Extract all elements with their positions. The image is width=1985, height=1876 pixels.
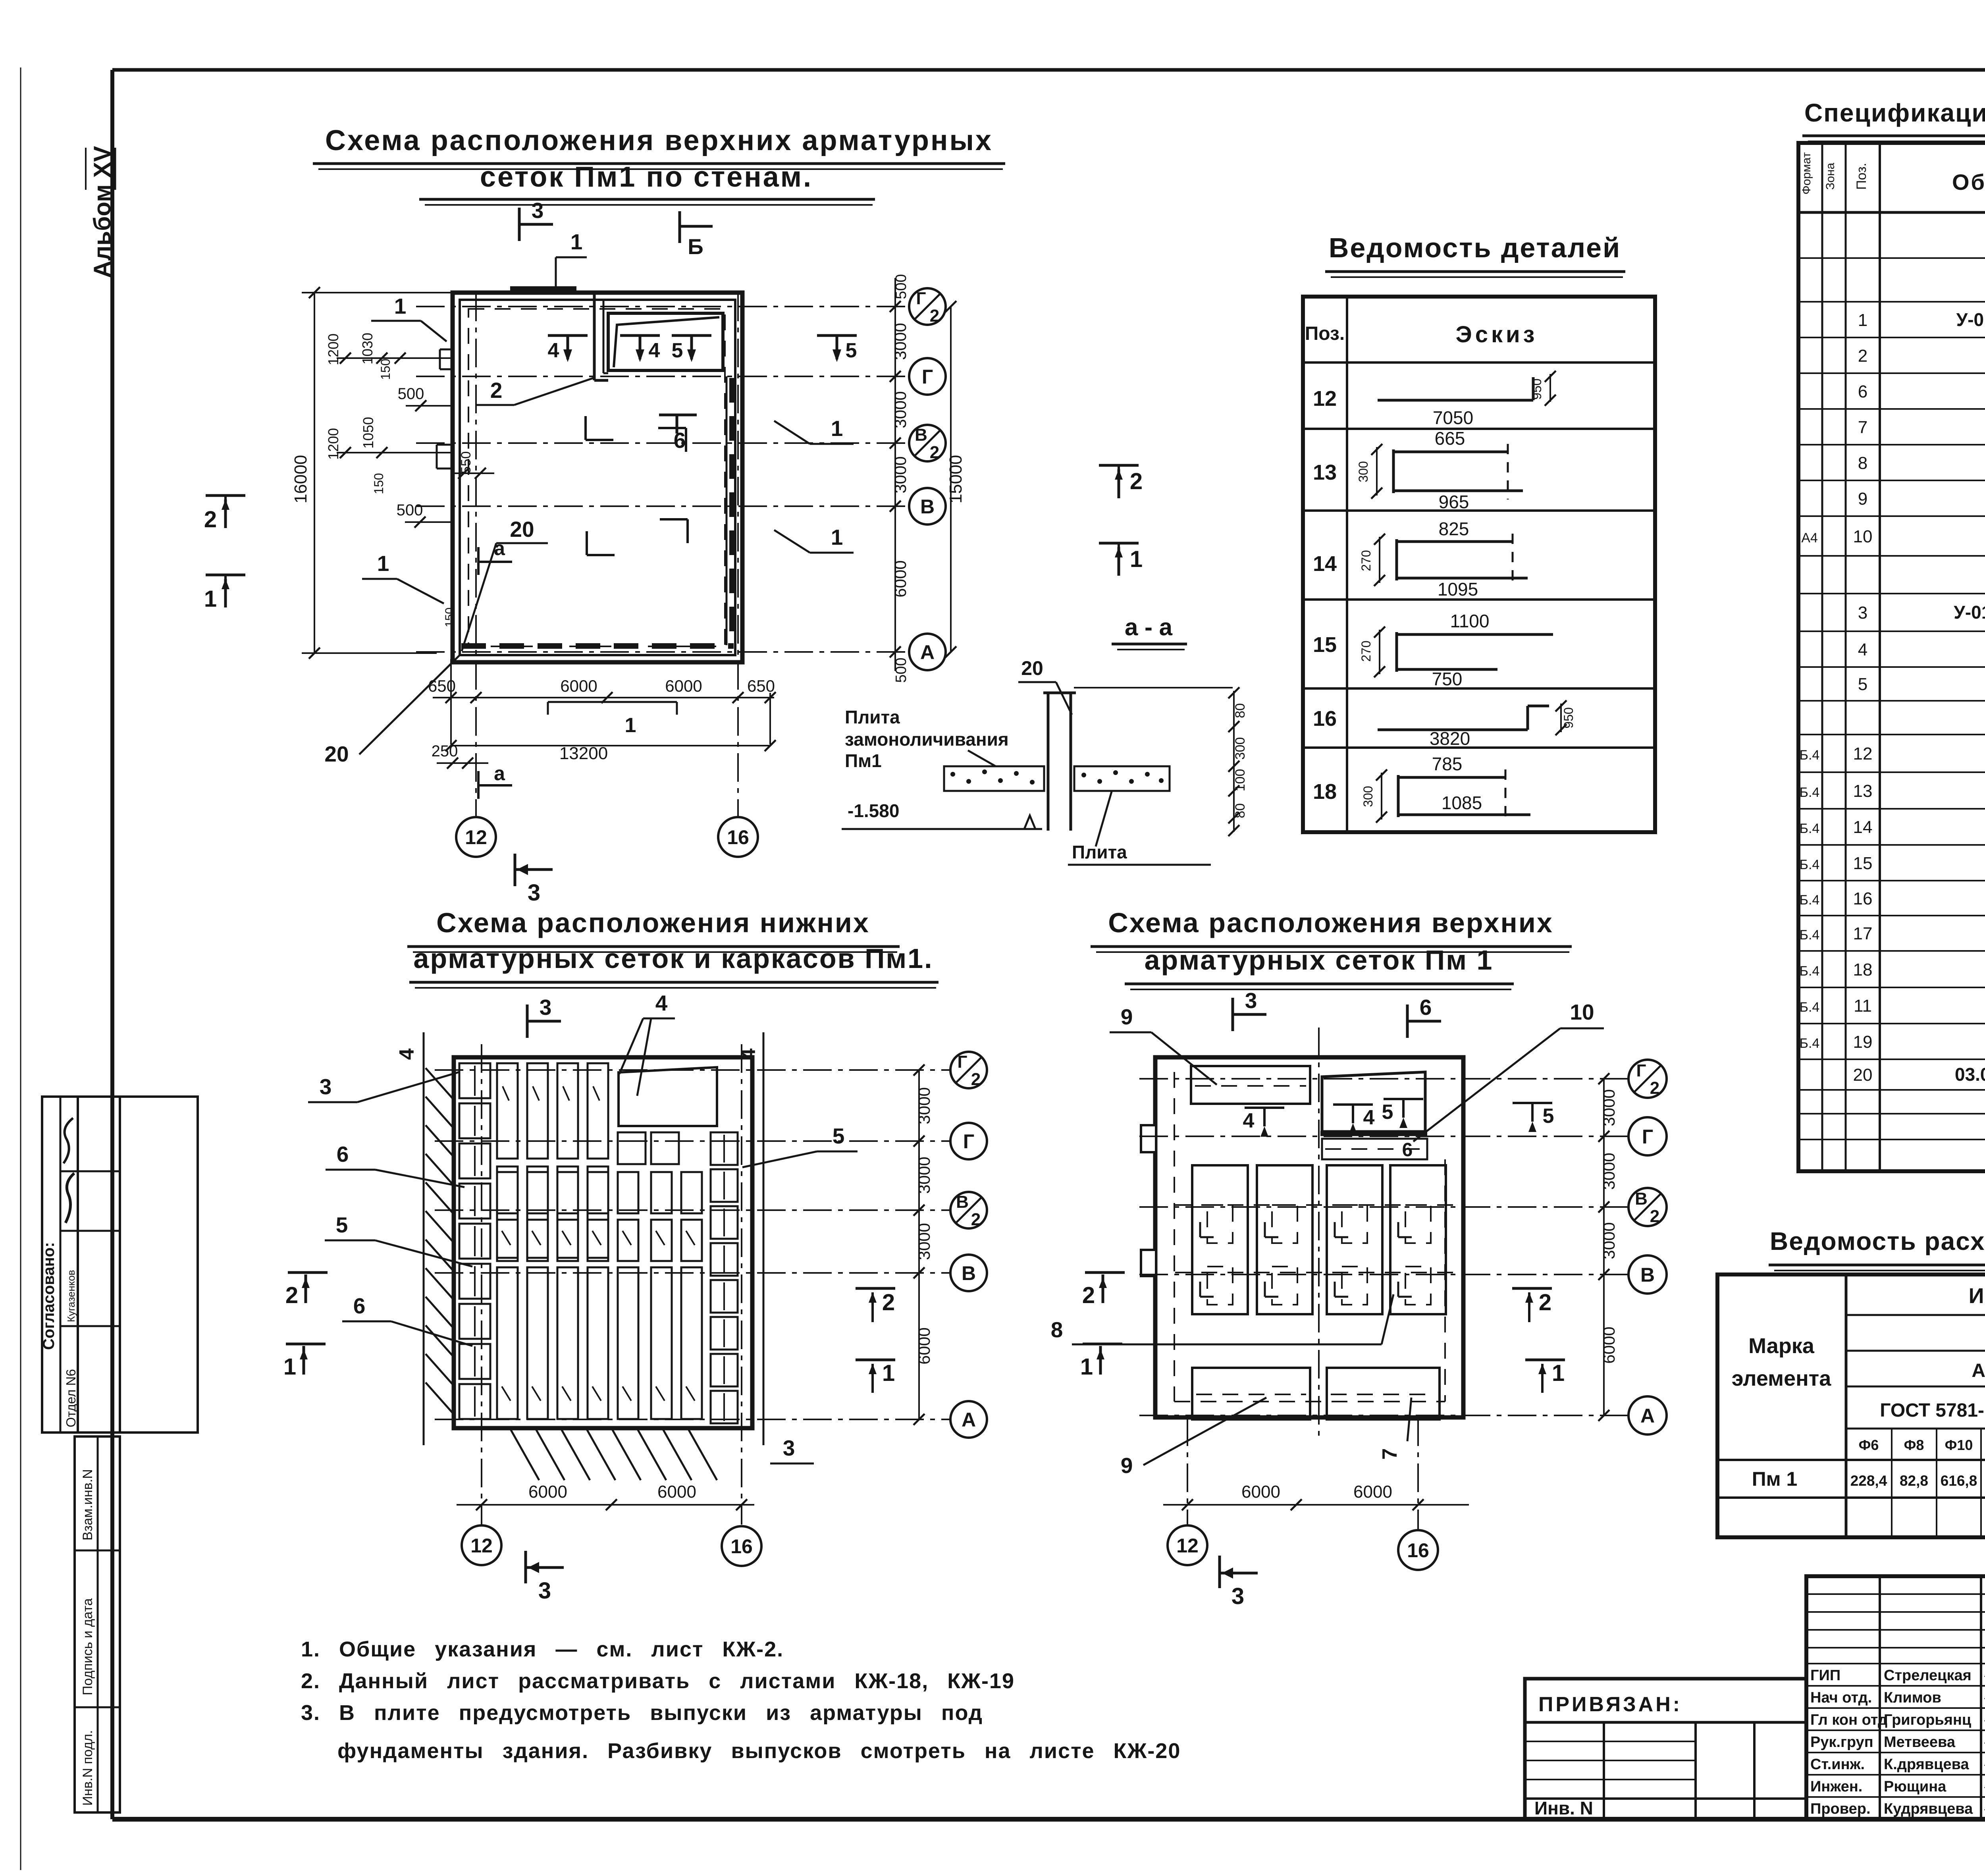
svg-text:100: 100 (1233, 769, 1248, 792)
svg-text:3000: 3000 (891, 323, 910, 360)
svg-text:Эскиз: Эскиз (1455, 322, 1538, 347)
svg-text:3000: 3000 (915, 1223, 933, 1260)
svg-text:В: В (1635, 1189, 1648, 1209)
svg-text:665: 665 (1435, 428, 1465, 449)
svg-text:Кудрявцева: Кудрявцева (1884, 1801, 1973, 1817)
svg-text:16000: 16000 (291, 455, 310, 503)
svg-text:15: 15 (1313, 633, 1337, 657)
svg-text:Подпись и дата: Подпись и дата (80, 1598, 95, 1695)
svg-text:82,8: 82,8 (1900, 1473, 1928, 1489)
svg-text:Ф6: Ф6 (1859, 1437, 1879, 1453)
svg-text:Б.4: Б.4 (1800, 893, 1820, 908)
svg-text:300: 300 (1361, 786, 1375, 807)
sketch row 12 (1378, 399, 1533, 402)
svg-text:12: 12 (465, 826, 487, 848)
svg-text:2: 2 (1650, 1207, 1659, 1226)
svg-text:825: 825 (1439, 519, 1469, 539)
plan A right dim chain (894, 278, 896, 671)
plan B cells right of room (618, 1132, 646, 1164)
svg-text:3: 3 (320, 1074, 332, 1099)
svg-text:1050: 1050 (360, 417, 376, 449)
plan C big cells (1192, 1165, 1248, 1314)
svg-text:Обозначение: Обозначение (1952, 170, 1985, 195)
svg-text:6: 6 (337, 1142, 349, 1166)
sheet frame (112, 68, 1985, 72)
svg-text:2: 2 (1650, 1078, 1659, 1098)
svg-text:3000: 3000 (1600, 1153, 1618, 1190)
svg-text:2: 2 (971, 1210, 981, 1229)
svg-text:785: 785 (1432, 754, 1463, 774)
svg-text:5: 5 (1543, 1105, 1554, 1128)
svg-text:6000: 6000 (1600, 1327, 1618, 1363)
svg-text:1030: 1030 (359, 333, 376, 364)
svg-text:12: 12 (1313, 387, 1337, 411)
svg-text:20: 20 (1853, 1065, 1873, 1085)
plan C inner dashed contour (1174, 1072, 1175, 1402)
svg-text:2. Данный лист рассматривать с: 2. Данный лист рассматривать с листами К… (301, 1669, 1015, 1693)
svg-text:Плита: Плита (845, 707, 900, 727)
svg-text:Б.4: Б.4 (1800, 927, 1820, 943)
section slabs (944, 766, 1044, 791)
svg-text:12: 12 (1176, 1535, 1199, 1557)
svg-text:1: 1 (625, 714, 636, 737)
section right dims (1233, 691, 1235, 832)
svg-text:3: 3 (783, 1436, 795, 1460)
svg-text:1085: 1085 (1442, 792, 1482, 813)
plan A right heavy dashed line (729, 378, 734, 644)
svg-text:6: 6 (1858, 382, 1867, 401)
plan C grid circles (1628, 1060, 1667, 1098)
plan B grid circles (950, 1052, 987, 1088)
svg-text:5: 5 (336, 1213, 348, 1237)
svg-text:Г: Г (963, 1130, 974, 1153)
plan A bracket mesh 1 bottom (548, 701, 677, 703)
svg-text:2: 2 (930, 306, 939, 326)
plan A bottom dim chain (433, 697, 774, 698)
plan A grid axes vertical 12 16 (475, 293, 477, 817)
svg-text:3000: 3000 (915, 1157, 933, 1193)
svg-text:Спецификация к схемам армиро: Спецификация к схемам армирования плиты … (1804, 98, 1985, 127)
plan C center axis vertical (1318, 1028, 1320, 1437)
svg-text:6000: 6000 (665, 677, 702, 695)
svg-text:500: 500 (893, 657, 910, 683)
svg-text:1: 1 (882, 1360, 895, 1386)
svg-text:Б.4: Б.4 (1800, 964, 1820, 979)
vzam/podpis/inv table (75, 1436, 120, 1812)
plan A wall notches left (440, 349, 453, 351)
svg-text:750: 750 (1432, 669, 1463, 689)
svg-text:16: 16 (727, 826, 749, 848)
svg-text:Схема расположения верхн: Схема расположения верхних (1108, 907, 1553, 938)
sketch row 13 (1392, 449, 1395, 493)
svg-text:9: 9 (1121, 1453, 1133, 1478)
svg-text:элемента: элемента (1732, 1367, 1831, 1390)
svg-text:5: 5 (846, 339, 857, 362)
svg-text:Поз.: Поз. (1305, 323, 1345, 344)
svg-text:Ф8: Ф8 (1904, 1437, 1924, 1453)
svg-text:Ст.инж.: Ст.инж. (1810, 1756, 1865, 1773)
svg-text:13200: 13200 (559, 744, 608, 763)
svg-text:11: 11 (1854, 996, 1872, 1016)
svg-text:Климов: Климов (1884, 1689, 1941, 1706)
plan C right dims (1603, 1079, 1605, 1415)
svg-text:Схема расположения верхних: Схема расположения верхних арматурных (325, 125, 993, 156)
svg-text:80: 80 (1233, 703, 1248, 718)
svg-text:Рук.груп: Рук.груп (1810, 1734, 1873, 1751)
plan B bottom strips (497, 1267, 518, 1419)
plan A bottom circles 12 16 (456, 817, 496, 857)
svg-text:арматурных сеток и карка: арматурных сеток и каркасов Пм1. (413, 943, 933, 974)
svg-text:6000: 6000 (1353, 1482, 1392, 1502)
svg-text:150: 150 (378, 359, 393, 380)
svg-text:Ведомость деталей: Ведомость деталей (1329, 232, 1621, 263)
svg-text:13: 13 (1853, 781, 1873, 801)
svg-text:К.дрявцева: К.дрявцева (1884, 1756, 1969, 1773)
svg-text:1095: 1095 (1438, 579, 1478, 600)
plan B top flags (526, 1005, 529, 1038)
svg-text:3. В плите предусмотреть выпус: 3. В плите предусмотреть выпуски из арма… (301, 1701, 983, 1725)
svg-text:4: 4 (1363, 1106, 1375, 1129)
svg-text:13: 13 (1313, 461, 1337, 484)
svg-text:1: 1 (831, 416, 843, 441)
svg-text:А4: А4 (1801, 530, 1818, 546)
svg-text:16: 16 (730, 1535, 753, 1558)
svg-text:16: 16 (1853, 889, 1873, 908)
plan C outline (1155, 1057, 1463, 1417)
svg-text:Г: Г (916, 289, 926, 308)
svg-text:Провер.: Провер. (1810, 1801, 1871, 1817)
spec table frame (1798, 143, 1985, 1171)
svg-text:5: 5 (1382, 1101, 1393, 1124)
plan A building outline (453, 293, 742, 662)
svg-text:2: 2 (1130, 469, 1143, 494)
svg-text:12: 12 (1853, 744, 1873, 764)
svg-text:965: 965 (1439, 492, 1469, 512)
svg-text:1: 1 (394, 294, 407, 318)
svg-text:1: 1 (831, 525, 843, 549)
svg-text:В: В (920, 496, 935, 518)
svg-text:Б.4: Б.4 (1800, 785, 1820, 800)
svg-text:Б.4: Б.4 (1800, 1036, 1820, 1051)
svg-text:10: 10 (1853, 527, 1873, 546)
svg-text:5: 5 (1858, 675, 1867, 694)
plan C axes (1139, 1078, 1628, 1080)
svg-text:Б.4: Б.4 (1800, 1000, 1820, 1015)
svg-text:Схема расположения нижних: Схема расположения нижних (436, 907, 870, 938)
plan B middle small cells (497, 1172, 518, 1213)
svg-text:Стрелецкая: Стрелецкая (1884, 1667, 1972, 1684)
plan B outline (454, 1057, 752, 1428)
plan C bottom dims (1163, 1504, 1469, 1506)
svg-text:6000: 6000 (657, 1482, 696, 1502)
svg-text:ГИП: ГИП (1810, 1667, 1840, 1684)
svg-text:1200: 1200 (325, 428, 341, 460)
steel table frame (1717, 1274, 1985, 1537)
svg-text:950: 950 (1530, 378, 1544, 399)
svg-text:Гл кон отд: Гл кон отд (1810, 1712, 1887, 1728)
sketch row 16 (1378, 729, 1528, 731)
svg-text:5: 5 (833, 1124, 845, 1148)
svg-text:3: 3 (538, 1578, 551, 1604)
svg-text:4: 4 (1858, 640, 1867, 659)
svg-text:500: 500 (893, 274, 910, 299)
plan C left notches (1141, 1125, 1156, 1152)
svg-text:Изделия арматурные: Изделия арматурные (1969, 1284, 1985, 1308)
svg-text:А I: А I (1972, 1360, 1985, 1381)
plan A grid axes horizontal (416, 306, 909, 307)
plan C top flags (1231, 998, 1234, 1031)
svg-text:У-01-01/80, вып 5: У-01-01/80, вып 5 (1956, 309, 1985, 330)
plan B section-4 vertical lines (423, 1032, 425, 1445)
svg-text:9: 9 (1121, 1005, 1133, 1029)
svg-text:12: 12 (470, 1535, 493, 1557)
svg-text:Кугазенков: Кугазенков (65, 1270, 77, 1322)
svg-text:1100: 1100 (1450, 611, 1490, 631)
flag 4 and 5 marks inside plan A (548, 334, 588, 337)
svg-text:17: 17 (1853, 924, 1873, 943)
svg-text:6: 6 (353, 1294, 366, 1318)
svg-text:3: 3 (528, 880, 540, 906)
svg-text:3820: 3820 (1430, 728, 1470, 749)
svg-text:Нач отд.: Нач отд. (1810, 1689, 1872, 1706)
svg-text:4: 4 (737, 1048, 760, 1060)
svg-text:5: 5 (672, 339, 683, 362)
svg-text:6000: 6000 (1241, 1482, 1280, 1502)
svg-text:А: А (1640, 1405, 1655, 1427)
svg-text:20: 20 (510, 517, 534, 542)
svg-text:10: 10 (1570, 1000, 1594, 1024)
svg-text:4: 4 (655, 991, 668, 1015)
plan A inner dashed contour (468, 309, 725, 646)
svg-text:Г: Г (1642, 1126, 1653, 1148)
plan A bottom flag 3 (514, 854, 516, 886)
svg-text:Б.4: Б.4 (1800, 857, 1820, 872)
privyazan table (1525, 1679, 1806, 1819)
svg-text:3: 3 (1858, 603, 1867, 623)
plan C bottom bands (1192, 1368, 1310, 1419)
svg-text:4: 4 (548, 339, 559, 362)
svg-text:15000: 15000 (946, 455, 966, 503)
svg-text:3: 3 (1245, 988, 1257, 1013)
svg-text:В: В (962, 1262, 976, 1284)
mesh 1 thick bar on top wall (510, 286, 576, 292)
svg-text:6000: 6000 (560, 677, 597, 695)
svg-text:6000: 6000 (528, 1482, 567, 1502)
title block (1806, 1576, 1985, 1819)
svg-text:Марка: Марка (1748, 1334, 1815, 1358)
svg-text:7: 7 (1378, 1448, 1401, 1460)
svg-text:В: В (1640, 1264, 1655, 1286)
section wall (1047, 693, 1050, 831)
soglasovano table (42, 1097, 120, 1433)
svg-text:1: 1 (1552, 1360, 1565, 1386)
svg-text:3: 3 (1231, 1583, 1244, 1609)
svg-text:1: 1 (570, 229, 583, 254)
plan C dashed horizontals (1175, 1204, 1453, 1206)
svg-text:14: 14 (1853, 817, 1873, 837)
svg-text:3: 3 (540, 995, 552, 1020)
svg-text:03.005-5. вып. 1,5: 03.005-5. вып. 1,5 (1955, 1064, 1985, 1085)
svg-text:4: 4 (649, 339, 660, 362)
svg-text:Б.4: Б.4 (1800, 748, 1820, 763)
svg-text:А: А (962, 1409, 976, 1431)
svg-text:3000: 3000 (1600, 1089, 1618, 1126)
plan C top-right room (1322, 1072, 1425, 1132)
svg-text:1: 1 (1130, 546, 1143, 572)
svg-text:20: 20 (1021, 657, 1043, 679)
svg-text:Поз.: Поз. (1854, 163, 1869, 190)
svg-text:1: 1 (1858, 310, 1867, 330)
plan A top-left room wall (593, 293, 596, 380)
svg-text:1. Общие указания — см. лист К: 1. Общие указания — см. лист КЖ-2. (301, 1637, 784, 1661)
svg-text:150: 150 (443, 607, 456, 627)
svg-text:ПРИВЯЗАН:: ПРИВЯЗАН: (1538, 1693, 1682, 1716)
svg-text:4: 4 (395, 1048, 418, 1060)
svg-text:-1.580: -1.580 (848, 800, 899, 821)
svg-text:3000: 3000 (891, 456, 910, 493)
svg-text:3000: 3000 (891, 391, 910, 428)
plan C bottom flag 3 (1218, 1556, 1221, 1588)
svg-text:2: 2 (1082, 1282, 1095, 1308)
plan B left cell column (459, 1063, 490, 1098)
svg-text:2: 2 (1858, 346, 1867, 366)
svg-text:500: 500 (397, 501, 423, 519)
svg-text:фундаменты здания. Разбивку вы: фундаменты здания. Разбивку выпусков смо… (337, 1739, 1181, 1763)
svg-text:2: 2 (285, 1282, 298, 1308)
svg-text:2: 2 (204, 507, 217, 532)
plan B left hatching (426, 1068, 454, 1100)
svg-text:9: 9 (1858, 489, 1867, 509)
svg-text:3000: 3000 (1600, 1222, 1618, 1259)
sketch row 14 (1395, 539, 1398, 580)
plan A small left dims (337, 357, 453, 359)
plan B top strips (497, 1063, 518, 1159)
svg-text:18: 18 (1853, 960, 1873, 979)
svg-text:6000: 6000 (891, 560, 910, 597)
svg-text:Инжен.: Инжен. (1810, 1778, 1862, 1795)
sketch row 18 (1397, 775, 1400, 817)
plan B bottom diagonal bundle (511, 1429, 539, 1480)
svg-text:2: 2 (882, 1290, 895, 1315)
svg-text:228,4: 228,4 (1850, 1473, 1887, 1489)
svg-text:18: 18 (1313, 780, 1337, 804)
svg-text:500: 500 (398, 385, 424, 403)
plan C top-left band (1191, 1066, 1310, 1104)
svg-text:650: 650 (747, 677, 775, 695)
svg-text:Инв.N подл.: Инв.N подл. (80, 1730, 95, 1806)
svg-text:300: 300 (1233, 737, 1248, 760)
svg-text:6: 6 (1402, 1139, 1413, 1161)
svg-text:16: 16 (1407, 1539, 1429, 1562)
svg-text:А: А (920, 641, 935, 663)
svg-text:арматурных сеток Пм 1: арматурных сеток Пм 1 (1145, 945, 1494, 976)
svg-text:Альбом XV: Альбом XV (89, 146, 116, 278)
svg-text:616,8: 616,8 (1941, 1473, 1977, 1489)
svg-text:Б.4: Б.4 (1800, 821, 1820, 836)
svg-text:14: 14 (1313, 552, 1337, 576)
svg-text:сеток Пм1 по стенам.: сеток Пм1 по стенам. (480, 161, 813, 193)
svg-text:Зона: Зона (1824, 163, 1837, 190)
plan C small hooks (1199, 1222, 1201, 1237)
svg-text:950: 950 (1561, 707, 1576, 728)
plan A left overall dim (314, 293, 315, 653)
svg-text:4: 4 (1243, 1109, 1255, 1132)
plan A grid circles (909, 288, 946, 325)
fold line left (20, 67, 21, 1870)
svg-text:Рющина: Рющина (1884, 1778, 1946, 1795)
svg-text:150: 150 (372, 473, 386, 494)
plan B white room top right (619, 1067, 717, 1126)
plan B bottom dims (457, 1504, 754, 1506)
svg-text:300: 300 (1356, 461, 1370, 482)
sketch row 15 (1395, 632, 1398, 672)
svg-text:а: а (494, 762, 505, 785)
svg-text:Г: Г (958, 1052, 967, 1072)
svg-text:Ведомость расхода ста: Ведомость расхода стали на элемент, кг. (1770, 1227, 1985, 1255)
svg-text:Григорьянц: Григорьянц (1884, 1712, 1972, 1728)
plan B bottom flag 3 (524, 1551, 527, 1583)
svg-text:2: 2 (930, 443, 939, 462)
svg-text:2: 2 (490, 378, 503, 403)
svg-text:а: а (494, 537, 505, 559)
svg-text:16: 16 (1313, 707, 1337, 731)
svg-text:Инв. N: Инв. N (1534, 1798, 1593, 1818)
svg-text:3000: 3000 (915, 1087, 933, 1124)
vedomost detaley table frame (1303, 297, 1655, 832)
svg-text:а - а: а - а (1125, 614, 1173, 640)
svg-text:1200: 1200 (325, 334, 341, 365)
svg-text:1: 1 (1080, 1354, 1093, 1380)
plan A bottom heavy dashed band (461, 643, 734, 649)
svg-text:Б: Б (688, 234, 703, 259)
svg-text:270: 270 (1359, 640, 1373, 661)
svg-text:Плита: Плита (1072, 842, 1127, 862)
plan B axes (435, 1069, 950, 1071)
svg-text:1: 1 (283, 1354, 296, 1380)
svg-text:Г: Г (1636, 1061, 1646, 1080)
svg-text:Пм 1: Пм 1 (1752, 1468, 1798, 1490)
plan B right cell column (711, 1132, 738, 1165)
plan B right dims (918, 1070, 920, 1419)
svg-text:1: 1 (377, 551, 389, 576)
svg-text:15: 15 (1853, 854, 1873, 873)
svg-text:В: В (915, 425, 927, 445)
svg-text:Согласовано:: Согласовано: (40, 1242, 58, 1350)
svg-text:8: 8 (1051, 1317, 1063, 1342)
plan A section flags (518, 208, 521, 241)
small corner hooks inside plan A (584, 416, 587, 440)
svg-text:270: 270 (1359, 550, 1373, 571)
svg-text:Пм1: Пм1 (845, 750, 882, 771)
room 4-5 (608, 313, 723, 370)
svg-text:Отдел N6: Отдел N6 (64, 1369, 78, 1427)
svg-text:Г: Г (922, 366, 933, 388)
svg-text:6: 6 (674, 428, 686, 453)
svg-text:Ф10: Ф10 (1945, 1437, 1973, 1453)
svg-text:2: 2 (1539, 1290, 1551, 1315)
svg-text:3: 3 (532, 198, 544, 223)
svg-text:Взам.инв.N: Взам.инв.N (80, 1469, 95, 1541)
svg-text:80: 80 (1233, 803, 1248, 818)
svg-text:20: 20 (324, 742, 349, 766)
svg-text:19: 19 (1853, 1032, 1873, 1052)
svg-text:У-01-01/80, вып. 5: У-01-01/80, вып. 5 (1954, 602, 1985, 623)
svg-text:замоноличивания: замоноличивания (845, 729, 1009, 750)
svg-text:6: 6 (1420, 995, 1432, 1020)
svg-text:6000: 6000 (915, 1327, 933, 1364)
svg-text:8: 8 (1858, 453, 1867, 473)
svg-text:7: 7 (1858, 418, 1867, 437)
